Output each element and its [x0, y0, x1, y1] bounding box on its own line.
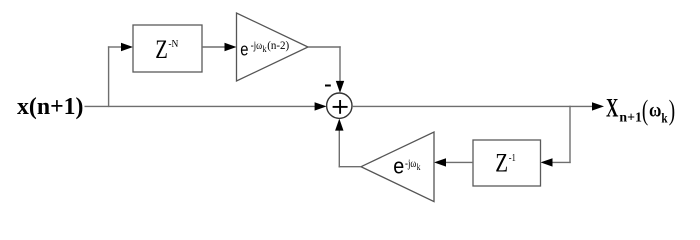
- arrow output: [592, 102, 604, 110]
- wire feedback apex left: [339, 166, 361, 168]
- svg-text:-1: -1: [509, 153, 516, 164]
- summing junction circle: [327, 93, 352, 118]
- minus sign label: [325, 85, 331, 87]
- svg-text:Z: Z: [495, 149, 508, 178]
- svg-text:X: X: [606, 94, 619, 123]
- svg-text:-N: -N: [168, 39, 178, 50]
- wire feedback to Z^-1: [551, 161, 571, 163]
- svg-text:x(n+1): x(n+1): [17, 94, 84, 120]
- delay block Z^-1: [473, 140, 541, 186]
- wire branch up from input node: [108, 46, 110, 107]
- arrow into summing junction bottom: [335, 119, 343, 131]
- arrow into summing junction top: [336, 81, 344, 93]
- wire up into summing junction bottom: [338, 130, 340, 167]
- svg-text:k: k: [661, 111, 668, 126]
- svg-text:e: e: [240, 39, 248, 59]
- wire Z^-N to multiplier: [202, 46, 226, 48]
- arrow into Z^-1 box: [541, 158, 553, 166]
- svg-text:ω: ω: [649, 100, 661, 122]
- multiplier triangle e^-jwk(n-2): [237, 13, 309, 81]
- svg-text:(: (: [642, 95, 648, 127]
- wire Z^-1 to feedback multiplier: [445, 161, 473, 163]
- wire multiplier apex right: [308, 46, 341, 48]
- delay block Z^-N: [133, 25, 202, 72]
- arrow into Z^-N box: [121, 43, 133, 51]
- svg-text:n+1: n+1: [619, 110, 642, 125]
- feedback multiplier triangle e^-jwk: [361, 132, 434, 202]
- svg-text:(n-2): (n-2): [267, 38, 289, 52]
- wire top horizontal into Z^-N: [108, 46, 123, 48]
- wire main output horizontal: [352, 105, 594, 107]
- wire main input horizontal: [85, 105, 318, 107]
- svg-text:Z: Z: [155, 35, 168, 64]
- svg-text:): ): [669, 95, 675, 127]
- svg-text:e: e: [393, 153, 404, 178]
- arrow into summing junction left: [315, 102, 327, 110]
- wire feedback branch down: [569, 106, 571, 163]
- svg-text:k: k: [417, 162, 421, 172]
- arrow into feedback multiplier: [434, 158, 446, 166]
- svg-text:-jω: -jω: [405, 156, 416, 170]
- wire down into summing junction top: [339, 46, 341, 82]
- svg-text:-jω: -jω: [251, 38, 263, 52]
- plus sign: [333, 106, 348, 108]
- arrow into multiplier triangle: [225, 43, 237, 51]
